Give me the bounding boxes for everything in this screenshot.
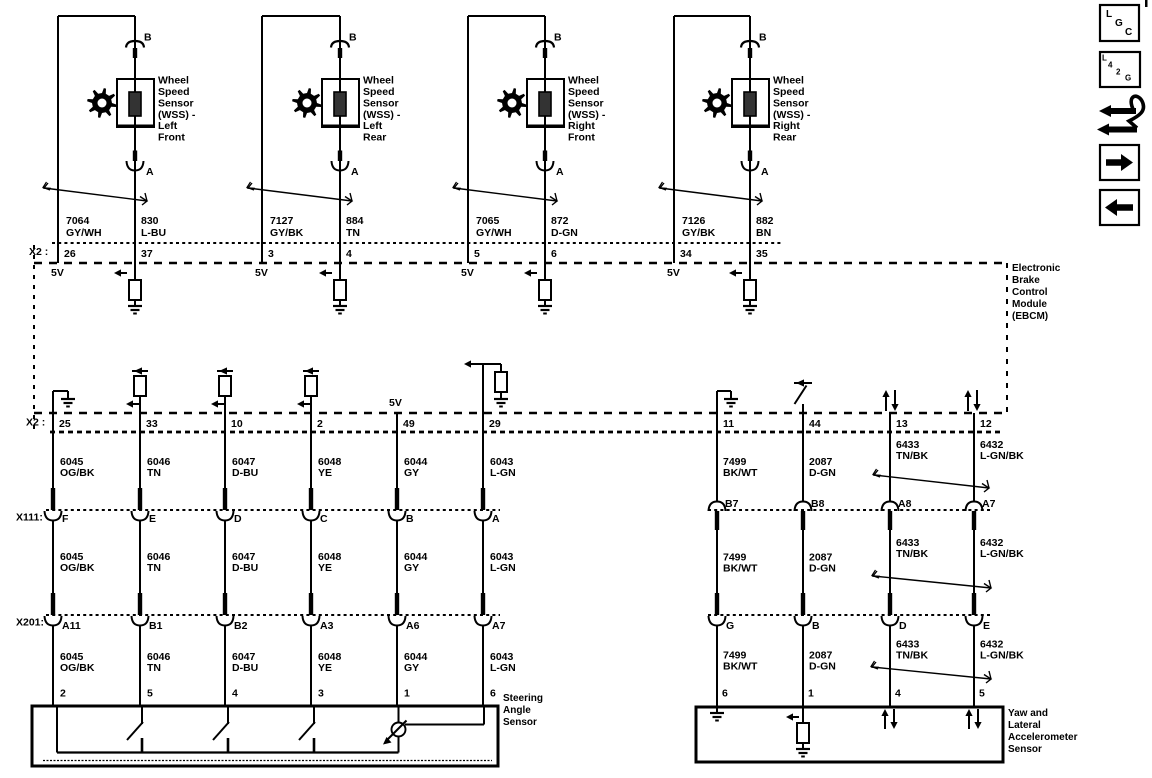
svg-text:L: L: [1106, 9, 1112, 20]
signal arrow into EBCM (pin 6): [524, 243, 545, 280]
svg-text:4: 4: [895, 688, 901, 700]
svg-text:35: 35: [756, 248, 768, 260]
svg-text:1: 1: [404, 688, 410, 700]
svg-text:G: G: [726, 620, 734, 632]
pin numbers X2 row 1: [64, 248, 768, 260]
SAS internal bus wire: [56, 706, 58, 753]
svg-text:X111:: X111:: [16, 512, 43, 524]
svg-text:Front: Front: [568, 132, 595, 144]
svg-text:E: E: [983, 620, 990, 632]
svg-text:GY/BK: GY/BK: [682, 227, 716, 239]
wire 7499 BK/WT (X2-11 to yaw sensor pin 6): [716, 413, 718, 707]
svg-text:(WSS) -: (WSS) -: [363, 109, 401, 121]
SAS potentiometer wiper: [383, 706, 407, 753]
svg-text:TN: TN: [147, 467, 161, 479]
svg-text:Rear: Rear: [773, 132, 796, 144]
connector row pin B8: [795, 502, 812, 531]
svg-text:GY: GY: [404, 562, 419, 574]
svg-text:Left: Left: [158, 120, 178, 132]
twisted pair marker (WSS RR): [659, 182, 762, 205]
svg-text:Front: Front: [158, 132, 185, 144]
inline connector pin A (WSS LR): [332, 151, 349, 171]
svg-text:11: 11: [723, 418, 734, 430]
connector X201 pin A3: [303, 593, 320, 626]
label WSS LF name: [158, 75, 196, 144]
svg-text:D-BU: D-BU: [232, 467, 258, 479]
pin numbers X2 row 2: [59, 418, 992, 430]
svg-text:L-GN: L-GN: [490, 562, 516, 574]
connector row 2 pin D: [882, 593, 899, 626]
svg-text:A: A: [492, 513, 500, 525]
twisted pair marker segment 1 (6433/6432): [873, 469, 989, 492]
svg-text:34: 34: [680, 248, 692, 260]
svg-text:B: B: [144, 32, 152, 44]
svg-text:4: 4: [1108, 61, 1113, 70]
svg-text:G: G: [1125, 74, 1131, 83]
svg-text:882: 882: [756, 215, 774, 227]
svg-text:Accelerometer: Accelerometer: [1008, 732, 1078, 743]
svg-text:F: F: [62, 513, 69, 525]
bias resistor (pin 6): [539, 280, 551, 300]
svg-text:7065: 7065: [476, 215, 500, 227]
twisted pair marker segment 3 (6433/6432): [871, 661, 991, 683]
icon button: back arrow: [1100, 190, 1139, 225]
pull-up resistor with driver arrow (pin 10): [211, 367, 233, 413]
connector X201 pin B2: [217, 593, 234, 626]
connector X201 row line: [46, 614, 500, 616]
wheel speed sensor WSS RF: [527, 79, 564, 127]
EBCM internal network (pin 29): arrow, resistor, ground: [464, 360, 508, 413]
svg-text:Lateral: Lateral: [1008, 720, 1041, 731]
label Yaw and Lateral Accelerometer Sensor: [1008, 708, 1078, 755]
wire label 6047 D-BU segment 2: [232, 551, 258, 574]
inline connector pin B (WSS LR): [331, 41, 349, 58]
svg-text:33: 33: [146, 418, 158, 430]
svg-text:Wheel: Wheel: [363, 75, 394, 87]
wire label 6433 TN/BK segment 1: [896, 439, 928, 462]
wire label 6047 D-BU segment 1: [232, 456, 258, 479]
svg-text:TN/BK: TN/BK: [896, 548, 928, 560]
inline connector pin B (WSS LF): [126, 41, 144, 58]
inline connector pin B (WSS RF): [536, 41, 554, 58]
wire label 6048 YE segment 3: [318, 651, 342, 674]
svg-text:TN: TN: [147, 562, 161, 574]
svg-text:884: 884: [346, 215, 364, 227]
svg-text:Right: Right: [568, 120, 595, 132]
wire label 7126 GY/BK: [682, 215, 716, 239]
svg-text:Sensor: Sensor: [1008, 744, 1042, 755]
wire label 6433 TN/BK segment 2: [896, 537, 928, 560]
svg-text:Angle: Angle: [503, 705, 531, 716]
EBCM internal ground (pin 25): [53, 391, 75, 413]
steering box inner bottom line: [43, 760, 492, 762]
svg-text:Sensor: Sensor: [773, 97, 809, 109]
wire label 6047 D-BU segment 3: [232, 651, 258, 674]
steering angle sensor box: [32, 706, 498, 766]
svg-text:L-GN: L-GN: [490, 467, 516, 479]
svg-text:Speed: Speed: [568, 86, 600, 98]
svg-text:Speed: Speed: [773, 86, 805, 98]
wire label 6433 TN/BK segment 3: [896, 639, 928, 662]
signal arrow into EBCM (pin 4): [319, 243, 340, 280]
wire label 2087 D-GN segment 1: [809, 456, 836, 479]
wire label 7499 BK/WT segment 1: [723, 456, 758, 479]
svg-text:5: 5: [147, 688, 153, 700]
wire label 6046 TN segment 1: [147, 456, 171, 479]
wire 6433 TN/BK (X2-13 to yaw sensor pin 4): [889, 413, 891, 707]
signal arrow into EBCM (pin 35): [729, 243, 750, 280]
wire label 6043 L-GN segment 1: [490, 456, 516, 479]
svg-text:TN: TN: [147, 662, 161, 674]
svg-text:49: 49: [403, 418, 415, 430]
connector X201 pin A6: [389, 593, 406, 626]
bias resistor (pin 37): [129, 280, 141, 300]
SAS internal switch at x=228: [213, 706, 229, 753]
svg-text:X201:: X201:: [16, 617, 44, 629]
ground inside EBCM (pin 37): [128, 300, 142, 314]
wire label 6048 YE segment 1: [318, 456, 342, 479]
wire label 7127 GY/BK: [270, 215, 304, 239]
svg-text:(WSS) -: (WSS) -: [568, 109, 606, 121]
wire 6044 GY (X2-49 to SAS pin 1): [396, 413, 398, 706]
svg-text:25: 25: [59, 418, 71, 430]
connector X111 pin B: [389, 488, 406, 521]
yaw sensor signal arrows (pin 5): [965, 709, 981, 729]
svg-text:10: 10: [231, 418, 243, 430]
svg-text:5: 5: [979, 688, 985, 700]
right harness connector row 1 line: [708, 509, 993, 511]
svg-text:Sensor: Sensor: [503, 717, 537, 728]
EBCM internal ground (pin 11): [717, 391, 738, 413]
wire 6045 OG/BK (X2-25 to SAS pin 2): [52, 413, 54, 706]
wire label 872 D-GN: [551, 215, 578, 239]
svg-text:BK/WT: BK/WT: [723, 661, 758, 673]
wire label 6044 GY segment 1: [404, 456, 428, 479]
wire label 7499 BK/WT segment 2: [723, 552, 758, 575]
wire 6047 D-BU (X2-10 to SAS pin 4): [224, 413, 226, 706]
svg-text:C: C: [320, 513, 328, 525]
svg-text:YE: YE: [318, 467, 332, 479]
label WSS RF name: [568, 75, 606, 144]
svg-text:4: 4: [346, 248, 352, 260]
svg-text:13: 13: [896, 418, 908, 430]
wire label 6046 TN segment 2: [147, 551, 171, 574]
wire 7065 GY/WH loop top (WSS RF): [468, 16, 545, 263]
label Electronic Brake Control Module (EBCM): [1012, 263, 1061, 322]
svg-text:A7: A7: [492, 620, 506, 632]
wire label 6432 L-GN/BK segment 2: [980, 537, 1024, 560]
wire 6432 L-GN/BK (X2-12 to yaw sensor pin 5): [973, 413, 975, 707]
ground inside EBCM (pin 35): [743, 300, 757, 314]
connector X2 row 2 (EBCM bottom): [50, 431, 1000, 434]
svg-text:44: 44: [809, 418, 821, 430]
svg-text:L: L: [1102, 54, 1107, 63]
svg-text:6: 6: [722, 688, 728, 700]
SAS internal switch at x=314: [299, 706, 315, 753]
svg-text:L-GN/BK: L-GN/BK: [980, 650, 1024, 662]
connector X111 pin F: [45, 488, 62, 521]
wire 7064 GY/WH loop top (WSS LF): [58, 16, 135, 263]
svg-text:37: 37: [141, 248, 153, 260]
wire 7127 GY/BK loop top (WSS LR): [262, 16, 340, 263]
svg-text:A6: A6: [406, 620, 420, 632]
icon: wrap to next segment arrows: [1097, 96, 1144, 135]
connector row 2 pin B: [795, 593, 812, 626]
bias resistor (pin 4): [334, 280, 346, 300]
svg-text:(EBCM): (EBCM): [1012, 311, 1048, 322]
svg-text:L-BU: L-BU: [141, 227, 166, 239]
svg-text:A11: A11: [62, 620, 81, 632]
wire 7126 GY/BK loop top (WSS RR): [674, 16, 750, 263]
svg-text:GY/BK: GY/BK: [270, 227, 304, 239]
connector X111 pin A: [475, 488, 492, 521]
wire 6048 YE (X2-2 to SAS pin 3): [310, 413, 312, 706]
svg-text:Speed: Speed: [158, 86, 190, 98]
tone ring gear (WSS RF): [497, 88, 527, 118]
svg-text:5V: 5V: [255, 267, 268, 279]
yaw sensor internal ground (pin 6): [710, 707, 724, 721]
wire 882 BN sensor lead (WSS RR): [749, 16, 751, 243]
connector X111 pin C: [303, 488, 320, 521]
wire 6046 TN (X2-33 to SAS pin 5): [139, 413, 141, 706]
svg-text:B1: B1: [149, 620, 163, 632]
inline connector pin A (WSS LF): [127, 151, 144, 171]
svg-text:7127: 7127: [270, 215, 294, 227]
svg-text:D-BU: D-BU: [232, 562, 258, 574]
wire label 884 TN: [346, 215, 364, 239]
svg-text:BN: BN: [756, 227, 771, 239]
label WSS LR name: [363, 75, 401, 144]
bidirectional signal arrows (pin 13): [882, 390, 898, 411]
connector X201 pin A11: [45, 593, 62, 626]
svg-text:A3: A3: [320, 620, 334, 632]
svg-text:B8: B8: [811, 498, 825, 510]
wire label 6432 L-GN/BK segment 1: [980, 439, 1024, 462]
connector X111 row line: [46, 509, 500, 511]
wire label 6432 L-GN/BK segment 3: [980, 639, 1024, 662]
svg-text:6: 6: [490, 688, 496, 700]
signal arrow into EBCM (pin 37): [114, 243, 135, 280]
svg-text:29: 29: [489, 418, 501, 430]
wheel speed sensor WSS LR: [322, 79, 359, 127]
svg-text:E: E: [149, 513, 156, 525]
svg-text:Wheel: Wheel: [158, 75, 189, 87]
SAS pin 6 internal wire: [405, 706, 484, 725]
twisted pair marker (WSS LF): [43, 182, 147, 205]
svg-text:YE: YE: [318, 562, 332, 574]
svg-text:D-GN: D-GN: [809, 467, 836, 479]
svg-text:Wheel: Wheel: [568, 75, 599, 87]
wire label 6045 OG/BK segment 1: [60, 456, 95, 479]
svg-text:Sensor: Sensor: [363, 97, 399, 109]
label Steering Angle Sensor: [503, 693, 543, 728]
svg-text:A: A: [761, 166, 769, 178]
svg-text:C: C: [1125, 27, 1132, 38]
svg-text:5V: 5V: [51, 267, 64, 279]
svg-text:(WSS) -: (WSS) -: [773, 109, 811, 121]
wire label 6043 L-GN segment 2: [490, 551, 516, 574]
svg-text:A7: A7: [982, 498, 996, 510]
svg-text:Steering: Steering: [503, 693, 543, 704]
svg-text:830: 830: [141, 215, 159, 227]
svg-text:YE: YE: [318, 662, 332, 674]
svg-text:L-GN: L-GN: [490, 662, 516, 674]
svg-text:2: 2: [1116, 68, 1121, 77]
svg-text:4: 4: [232, 688, 238, 700]
tone ring gear (WSS RR): [702, 88, 732, 118]
bidirectional signal arrows (pin 12): [964, 390, 980, 411]
wire label 6048 YE segment 2: [318, 551, 342, 574]
wire label 6045 OG/BK segment 2: [60, 551, 95, 574]
svg-text:X2 :: X2 :: [26, 417, 45, 429]
wire label 7065 GY/WH: [476, 215, 512, 239]
inline connector pin A (WSS RR): [742, 151, 759, 171]
connector X111 pin D: [217, 488, 234, 521]
svg-text:GY: GY: [404, 467, 419, 479]
connector row 2 pin G: [709, 593, 726, 626]
svg-text:Sensor: Sensor: [568, 97, 604, 109]
svg-text:Sensor: Sensor: [158, 97, 194, 109]
svg-text:B: B: [349, 32, 357, 44]
icon button: hotlink L-G-C: [1100, 5, 1139, 41]
SAS internal switch at x=142: [127, 706, 143, 753]
svg-text:D-BU: D-BU: [232, 662, 258, 674]
connector row pin B7: [709, 502, 726, 531]
svg-text:GY: GY: [404, 662, 419, 674]
label WSS RR name: [773, 75, 811, 144]
svg-text:OG/BK: OG/BK: [60, 467, 95, 479]
wire 6043 L-GN (X2-29 to SAS pin 6): [482, 413, 484, 706]
connector X201 pin A7: [475, 593, 492, 626]
svg-text:TN/BK: TN/BK: [896, 450, 928, 462]
svg-text:D: D: [899, 620, 907, 632]
inline connector pin A (WSS RF): [537, 151, 554, 171]
connector row pin A7: [966, 502, 983, 531]
wire 2087 D-GN (X2-44 to yaw sensor pin 1): [802, 413, 804, 707]
svg-text:3: 3: [268, 248, 274, 260]
svg-text:5V: 5V: [389, 397, 402, 409]
svg-text:B2: B2: [234, 620, 248, 632]
wire label 6043 L-GN segment 3: [490, 651, 516, 674]
connector X2 row 1 (EBCM top): [52, 242, 782, 244]
serial data driver switch (pin 44): [794, 379, 812, 413]
connector X201 pin B1: [132, 593, 149, 626]
bias resistor (pin 35): [744, 280, 756, 300]
svg-text:TN: TN: [346, 227, 360, 239]
svg-text:6: 6: [551, 248, 557, 260]
svg-text:5: 5: [474, 248, 480, 260]
wire label 7064 GY/WH: [66, 215, 102, 239]
svg-text:D: D: [234, 513, 242, 525]
wire label 830 L-BU: [141, 215, 166, 239]
yaw and lateral accelerometer sensor box: [696, 707, 1003, 762]
svg-text:B: B: [759, 32, 767, 44]
svg-text:D-GN: D-GN: [809, 661, 836, 673]
connector row 2 pin E: [966, 593, 983, 626]
pull-up resistor with driver arrow (pin 2): [297, 367, 319, 413]
wire label 2087 D-GN segment 3: [809, 650, 836, 673]
svg-text:Electronic: Electronic: [1012, 263, 1061, 274]
icon button: hotlink small L-4-2-G: [1100, 52, 1140, 87]
EBCM module dashed box right edge: [1006, 263, 1008, 413]
pull-up resistor with driver arrow (pin 33): [126, 367, 148, 413]
svg-text:Module: Module: [1012, 299, 1047, 310]
EBCM module dashed box top edge: [34, 262, 1007, 264]
svg-text:BK/WT: BK/WT: [723, 467, 758, 479]
svg-text:Brake: Brake: [1012, 275, 1040, 286]
svg-text:D-GN: D-GN: [809, 563, 836, 575]
svg-text:A8: A8: [898, 498, 912, 510]
wheel speed sensor WSS LF: [117, 79, 154, 127]
svg-text:B: B: [812, 620, 820, 632]
ground inside EBCM (pin 4): [333, 300, 347, 314]
twisted pair marker segment 2 (6433/6432): [872, 570, 991, 592]
svg-text:7064: 7064: [66, 215, 90, 227]
svg-text:5V: 5V: [667, 267, 680, 279]
svg-text:5V: 5V: [461, 267, 474, 279]
svg-text:TN/BK: TN/BK: [896, 650, 928, 662]
connector row pin A8: [882, 502, 899, 531]
svg-text:Rear: Rear: [363, 132, 386, 144]
svg-text:7126: 7126: [682, 215, 706, 227]
svg-text:Yaw and: Yaw and: [1008, 708, 1048, 719]
svg-text:2: 2: [60, 688, 66, 700]
yaw sensor signal arrows (pin 4): [881, 709, 897, 729]
connector X111 pin E: [132, 488, 149, 521]
svg-text:3: 3: [318, 688, 324, 700]
svg-text:L-GN/BK: L-GN/BK: [980, 450, 1024, 462]
svg-text:B: B: [406, 513, 414, 525]
svg-text:(WSS) -: (WSS) -: [158, 109, 196, 121]
wire label 6044 GY segment 2: [404, 551, 428, 574]
inline connector pin B (WSS RR): [741, 41, 759, 58]
twisted pair marker (WSS LR): [247, 182, 352, 205]
wire 830 L-BU sensor lead (WSS LF): [134, 16, 136, 243]
svg-text:BK/WT: BK/WT: [723, 563, 758, 575]
wire label 6046 TN segment 3: [147, 651, 171, 674]
svg-text:Right: Right: [773, 120, 800, 132]
svg-text:B: B: [554, 32, 562, 44]
svg-text:A: A: [146, 166, 154, 178]
wire 872 D-GN sensor lead (WSS RF): [544, 16, 546, 243]
ground inside EBCM (pin 6): [538, 300, 552, 314]
tone ring gear (WSS LF): [87, 88, 117, 118]
svg-text:872: 872: [551, 215, 569, 227]
wheel speed sensor WSS RR: [732, 79, 769, 127]
svg-text:Wheel: Wheel: [773, 75, 804, 87]
wire label 2087 D-GN segment 2: [809, 552, 836, 575]
wire label 7499 BK/WT segment 3: [723, 650, 758, 673]
twisted pair marker (WSS RF): [453, 182, 557, 205]
svg-text:2: 2: [317, 418, 323, 430]
svg-text:OG/BK: OG/BK: [60, 562, 95, 574]
svg-text:OG/BK: OG/BK: [60, 662, 95, 674]
svg-text:D-GN: D-GN: [551, 227, 578, 239]
corner mark: [1145, 0, 1148, 7]
svg-text:B7: B7: [725, 498, 739, 510]
EBCM module dashed box left edge: [33, 245, 35, 432]
svg-text:Speed: Speed: [363, 86, 395, 98]
svg-text:X2 :: X2 :: [29, 246, 48, 258]
svg-text:A: A: [556, 166, 564, 178]
svg-text:12: 12: [980, 418, 992, 430]
svg-text:G: G: [1115, 18, 1123, 29]
svg-text:L-GN/BK: L-GN/BK: [980, 548, 1024, 560]
tone ring gear (WSS LR): [292, 88, 322, 118]
svg-text:Control: Control: [1012, 287, 1048, 298]
wire label 6044 GY segment 3: [404, 651, 428, 674]
svg-text:26: 26: [64, 248, 76, 260]
